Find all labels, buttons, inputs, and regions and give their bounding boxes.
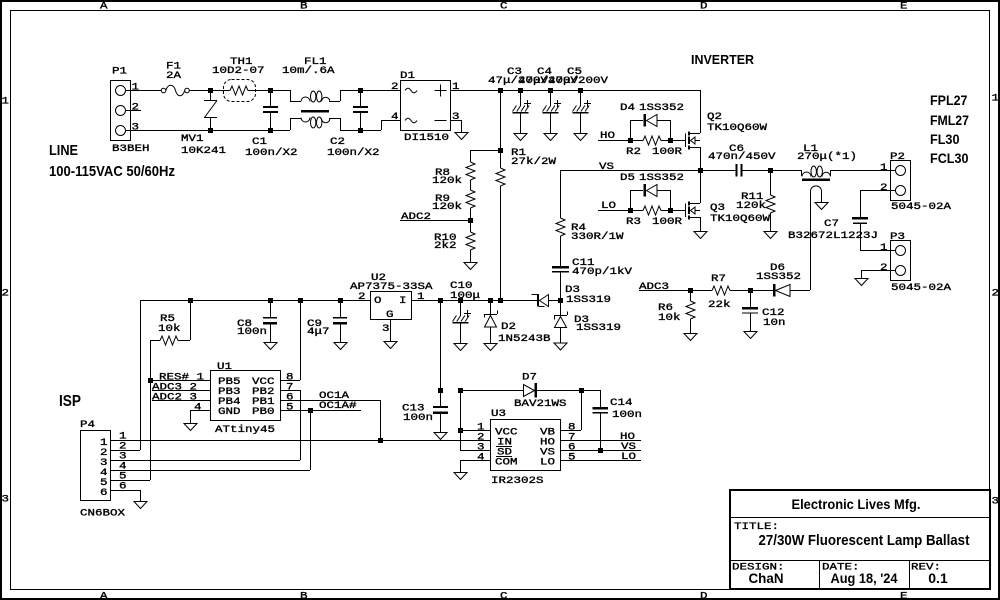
svg-text:MV1: MV1 (181, 133, 204, 145)
capacitor C9 4u7 (340, 300, 342, 317)
ground U3 COM (454, 473, 467, 480)
wire rail right of R1 to D3 (500, 300, 537, 302)
junction MV1 bottom (208, 128, 213, 133)
svg-text:1N5243B: 1N5243B (498, 333, 551, 345)
resistor R1 27k/2W (500, 90, 502, 150)
svg-text:100R: 100R (652, 216, 683, 228)
wire P4.4 (110, 470, 310, 472)
svg-text:4: 4 (194, 402, 202, 414)
net label ADC3 wire (639, 290, 690, 292)
svg-text:GND: GND (218, 406, 241, 418)
svg-text:A: A (100, 591, 108, 600)
svg-text:ISP: ISP (59, 393, 81, 410)
capacitor C8 100n (270, 300, 272, 317)
wire C7 to P3.1 (860, 250, 900, 252)
capacitor C13 100n (440, 390, 442, 406)
svg-text:ADC2 3: ADC2 3 (152, 392, 197, 404)
svg-text:2: 2 (132, 102, 140, 114)
svg-text:2: 2 (880, 262, 888, 274)
junction ADC3 R6 (688, 288, 693, 293)
junction C2 top (358, 88, 363, 93)
svg-text:E: E (900, 591, 908, 600)
capacitor C12 10n (750, 290, 752, 307)
svg-text:470p/1kV: 470p/1kV (572, 266, 633, 278)
svg-text:10k: 10k (658, 312, 681, 324)
svg-text:LO: LO (601, 200, 616, 212)
svg-text:1: 1 (2, 96, 10, 108)
svg-text:27k/2W: 27k/2W (511, 156, 557, 168)
diode D5 1SS352 (630, 190, 632, 210)
inductor L1 270u(*1) (801, 170, 803, 176)
svg-text:IR2302S: IR2302S (491, 475, 544, 487)
resistor R3 100R (643, 206, 661, 215)
wire OC1A# junction down to P4.4 (310, 410, 312, 470)
net label HO wire U3 pin7 (560, 440, 641, 442)
net label HO wire (598, 140, 643, 142)
ground R6 (684, 334, 697, 341)
svg-text:FCL30: FCL30 (930, 150, 969, 166)
svg-text:270μ(*1): 270μ(*1) (797, 151, 857, 163)
svg-text:120k: 120k (432, 201, 462, 213)
svg-text:3: 3 (452, 111, 460, 123)
junction D3 C11 node (558, 298, 563, 303)
capacitor C5 47u/200V (580, 90, 582, 106)
svg-text:C14: C14 (610, 397, 633, 409)
junction C1 bottom (268, 128, 273, 133)
wire TH1 to C1 to FL1 (248, 90, 290, 92)
ground R11 (764, 232, 777, 239)
wire P3.2 to ground (861, 270, 863, 278)
junction C5 (578, 88, 583, 93)
svg-text:5: 5 (568, 452, 576, 464)
ground C13 (434, 433, 447, 440)
svg-text:120k: 120k (432, 175, 462, 187)
fuse F1 2A (161, 88, 166, 93)
svg-text:2: 2 (2, 288, 10, 300)
svg-text:1: 1 (417, 291, 425, 303)
svg-text:ATtiny45: ATtiny45 (215, 424, 275, 436)
svg-text:PB0: PB0 (252, 406, 275, 418)
svg-text:HO: HO (600, 130, 615, 142)
ground C3 (514, 134, 527, 141)
ground D3 (554, 343, 567, 350)
svg-text:B: B (300, 591, 308, 600)
junction rail D7 riser (438, 298, 443, 303)
svg-text:FPL27: FPL27 (930, 92, 968, 108)
svg-text:4μ7: 4μ7 (307, 326, 330, 338)
ground C5 (574, 134, 587, 141)
net label LO wire U3 pin5 (560, 460, 641, 462)
wire VCC rail 3.3V (140, 300, 370, 302)
net label LO wire (598, 210, 643, 212)
svg-text:10m/.6A: 10m/.6A (282, 65, 335, 77)
svg-text:A: A (100, 1, 108, 13)
svg-text:1SS352: 1SS352 (639, 102, 684, 114)
svg-text:1: 1 (992, 93, 1000, 105)
svg-text:R3: R3 (626, 216, 641, 228)
svg-text:ChaN: ChaN (749, 570, 784, 586)
junction U3 VCC pin1 (458, 428, 463, 433)
wire U3 VCC SD riser (460, 390, 462, 450)
junction R1 top (498, 148, 503, 153)
junction C2 bottom (358, 128, 363, 133)
svg-text:C7: C7 (824, 218, 839, 230)
common-mode choke FL1 10m/.6A (290, 90, 292, 101)
svg-text:B32672L1223J: B32672L1223J (788, 230, 878, 242)
svg-text:2: 2 (880, 182, 888, 194)
capacitor C4 47u/200V (550, 90, 552, 106)
svg-text:LINE: LINE (49, 142, 78, 159)
capacitor C6 470n/450V (736, 164, 738, 177)
svg-text:TK10Q60W: TK10Q60W (707, 122, 768, 134)
svg-text:5045-02A: 5045-02A (891, 201, 952, 213)
junction VS node (698, 168, 703, 173)
wire FL1 to C2 to D1 (340, 130, 381, 132)
connector P3 (891, 241, 911, 281)
junction rail C8 (268, 298, 273, 303)
svg-text:P4: P4 (80, 419, 95, 431)
resistor R8 120k (466, 162, 475, 180)
svg-text:1: 1 (880, 162, 888, 174)
ground C9 (334, 343, 347, 350)
svg-text:120k: 120k (736, 200, 766, 212)
net VS wire (560, 170, 700, 172)
diode D6 1SS352 (750, 290, 773, 292)
junction bus D1 (498, 88, 503, 93)
svg-text:D2: D2 (501, 321, 516, 333)
junction R11 top (768, 168, 773, 173)
L1 sense winding (810, 191, 812, 290)
junction OC1A# P4.4 (308, 408, 313, 413)
wire U1 VCC to rail (280, 380, 300, 382)
ground U2 G (384, 342, 397, 349)
ground C12 (744, 332, 757, 339)
svg-text:10K241: 10K241 (181, 145, 226, 157)
capacitor C3 47u/200V (520, 90, 522, 106)
svg-text:Aug 18, '24: Aug 18, '24 (831, 570, 898, 586)
svg-text:3: 3 (992, 496, 1000, 508)
wire P4.5 to RES# (110, 480, 150, 482)
wire VS to C6 (700, 170, 736, 172)
wire P4.2 to VCC riser (110, 450, 140, 452)
capacitor C14 100n (593, 407, 609, 410)
svg-text:10D2-07: 10D2-07 (212, 65, 265, 77)
svg-text:2A: 2A (166, 70, 182, 82)
svg-text:FML27: FML27 (930, 112, 969, 128)
svg-text:0.1: 0.1 (928, 570, 948, 586)
svg-text:3: 3 (132, 122, 140, 134)
svg-text:22k: 22k (708, 299, 731, 311)
junction ADC2 R9 R10 (468, 218, 473, 223)
junction C4 (548, 88, 553, 93)
wire DC bus 200V (500, 90, 700, 92)
connector P4 CN6BOX (81, 431, 111, 501)
svg-text:C: C (500, 591, 508, 600)
net label ADC2 to U1 pin3 (152, 400, 210, 402)
junction LO D5 left (628, 208, 633, 213)
junction MV1 top (208, 88, 213, 93)
svg-text:R7: R7 (711, 273, 726, 285)
svg-text:BAV21WS: BAV21WS (514, 398, 567, 410)
svg-text:1: 1 (880, 242, 888, 254)
net label ADC2 wire (400, 220, 470, 222)
svg-text:4: 4 (477, 452, 485, 464)
svg-text:C: C (500, 1, 508, 13)
svg-text:LO: LO (621, 451, 636, 463)
ground P4.6 (134, 502, 147, 509)
connector P1 (120, 90, 163, 92)
junction rail D2 (488, 298, 493, 303)
resistor R4 330R/1W (560, 170, 562, 218)
svg-text:5: 5 (286, 402, 294, 414)
svg-text:U3: U3 (491, 408, 506, 420)
resistor R6 10k (690, 290, 692, 301)
svg-text:100R: 100R (652, 146, 683, 158)
wire fuse to TH1 (189, 90, 230, 92)
svg-text:100n: 100n (237, 326, 267, 338)
svg-text:5045-02A: 5045-02A (891, 282, 952, 294)
svg-text:2k2: 2k2 (434, 240, 457, 252)
ground D2 (484, 344, 497, 351)
wire R1 junction to R8 (470, 150, 500, 152)
svg-text:100-115VAC 50/60Hz: 100-115VAC 50/60Hz (49, 163, 175, 180)
svg-text:470n/450V: 470n/450V (708, 151, 776, 163)
svg-text:INVERTER: INVERTER (691, 52, 755, 67)
junction C3 (518, 88, 523, 93)
junction R7 C12 (748, 288, 753, 293)
svg-text:D: D (700, 591, 708, 600)
wire P4.3 (110, 460, 300, 462)
wire U3 COM to ground (460, 460, 490, 462)
svg-text:3: 3 (382, 323, 390, 335)
svg-text:27/30W Fluorescent Lamp Ballas: 27/30W Fluorescent Lamp Ballast (759, 532, 970, 549)
svg-text:D: D (700, 1, 708, 13)
svg-text:100n/X2: 100n/X2 (327, 147, 380, 159)
svg-text:2: 2 (358, 291, 366, 303)
ground L1 sense (815, 203, 828, 210)
svg-text:47μ/200V: 47μ/200V (548, 75, 609, 87)
svg-text:1SS352: 1SS352 (639, 172, 684, 184)
svg-text:D4: D4 (620, 102, 635, 114)
resistor R10 2k2 (470, 220, 472, 232)
wire bottom line P1.3 to FL1 (130, 130, 290, 132)
junction rail C9 (338, 298, 343, 303)
svg-text:10n: 10n (763, 317, 786, 329)
svg-text:P3: P3 (890, 231, 905, 243)
svg-text:G: G (386, 309, 394, 321)
transistor Q3 TK10Q60W (685, 204, 687, 218)
svg-text:Electronic Lives Mfg.: Electronic Lives Mfg. (792, 496, 921, 512)
connector P2 (891, 161, 911, 201)
svg-text:D5: D5 (620, 172, 635, 184)
net label OC1A wire U1 PB1 (280, 400, 380, 402)
svg-text:R2: R2 (626, 146, 641, 158)
svg-text:FL30: FL30 (930, 131, 960, 147)
ground C8 (264, 343, 277, 350)
resistor R7 22k (690, 290, 712, 292)
svg-text:D1: D1 (400, 70, 415, 82)
junction rail C10 (458, 298, 463, 303)
svg-text:CN6BOX: CN6BOX (80, 508, 126, 520)
gate driver U3 IR2302S (491, 420, 561, 471)
svg-text:E: E (900, 1, 908, 13)
junction R3 D5 right (668, 208, 673, 213)
resistor R2 100R (643, 136, 661, 145)
junction C14 VS (598, 448, 603, 453)
svg-text:I: I (399, 295, 407, 307)
wire VCC rail corner down to P4.2 (140, 300, 142, 450)
wire C6 to L1 (743, 170, 771, 172)
net label ADC3 to U1 pin2 (152, 390, 210, 392)
svg-text:DI1510: DI1510 (404, 132, 449, 144)
diode D3 1SS319 vertical (560, 300, 562, 316)
svg-text:TK10Q60W: TK10Q60W (710, 213, 771, 225)
capacitor C7 B32672L1223J (852, 217, 868, 220)
ground D1 pin3 (455, 133, 468, 140)
svg-text:B: B (300, 1, 308, 13)
svg-text:OC1A#: OC1A# (319, 400, 357, 412)
regulator U2 AP7375-33SA (371, 292, 412, 320)
svg-text:100μ: 100μ (450, 290, 480, 302)
svg-text:6: 6 (100, 487, 108, 499)
resistor R5 10k (190, 300, 192, 340)
svg-text:330R/1W: 330R/1W (571, 231, 624, 243)
svg-text:100n/X2: 100n/X2 (245, 147, 298, 159)
wire D1 pin1 to bus (450, 90, 500, 92)
ground U1 GND (184, 424, 197, 431)
resistor R11 120k (770, 170, 772, 195)
wire P4.6 to ground (110, 490, 140, 492)
net label OC1A# wire U1 PB0 (280, 410, 361, 412)
net label RES# wire (150, 380, 210, 382)
bridge rectifier D1 DI1510 (401, 81, 451, 131)
ground C10 (454, 344, 467, 351)
svg-text:1SS319: 1SS319 (576, 322, 621, 334)
zener D2 1N5243B (490, 300, 492, 314)
wire U3 pin1 (460, 430, 490, 432)
svg-text:U1: U1 (217, 361, 232, 373)
svg-text:VS: VS (599, 161, 614, 173)
wire P2.2 to C7 (860, 190, 862, 217)
wire rail riser to D7 rail (440, 300, 442, 390)
svg-text:2: 2 (992, 288, 1000, 300)
junction P4.1 OC1A (378, 438, 383, 443)
svg-text:B3BEH: B3BEH (112, 143, 150, 155)
diode D7 BAV21WS (460, 390, 523, 392)
capacitor C10 100u (460, 300, 462, 316)
diode D4 1SS352 (630, 120, 632, 140)
junction RES# net (148, 378, 153, 383)
junction R2 D4 right (668, 138, 673, 143)
wire U1 PB2 to P4.3 (280, 390, 300, 392)
svg-text:LO: LO (540, 457, 555, 469)
svg-text:4: 4 (391, 111, 399, 123)
junction C1 top (268, 88, 273, 93)
svg-text:100n: 100n (612, 409, 642, 421)
title block frame (730, 490, 990, 589)
svg-text:1: 1 (452, 81, 460, 93)
varistor MV1 10K241 (210, 90, 212, 100)
wire D1 pin3 to ground (450, 120, 461, 122)
svg-text:10k: 10k (158, 323, 181, 335)
junction D7 rail left (438, 388, 443, 393)
wire D7 to C14 (581, 390, 600, 392)
svg-text:O: O (374, 295, 382, 307)
svg-text:1SS352: 1SS352 (756, 271, 801, 283)
capacitor C2 100n/X2 (360, 90, 362, 106)
svg-text:D7: D7 (522, 372, 537, 384)
junction D7 rail U3 VCC riser (458, 388, 463, 393)
wire U2 G to ground (390, 320, 392, 341)
svg-text:1SS319: 1SS319 (566, 294, 611, 306)
thermistor TH1 10D2-07 (224, 80, 256, 102)
junction D7 VB riser (579, 388, 584, 393)
ground R10 (464, 263, 477, 270)
junction rail U1 VCC riser (298, 298, 303, 303)
resistor R9 120k (466, 190, 475, 208)
net label VS wire U3 pin6 (560, 450, 641, 452)
junction rail R5 (188, 298, 193, 303)
capacitor C1 100n/X2 (270, 90, 272, 106)
svg-text:P1: P1 (112, 66, 127, 78)
junction rail R1 bottom (498, 298, 503, 303)
capacitor C11 470p/1kV (552, 266, 569, 269)
junction HO D4 left (628, 138, 633, 143)
transistor Q2 TK10Q60W (685, 134, 687, 148)
svg-text:ADC2: ADC2 (401, 211, 431, 223)
wire U3 VB to D7 (560, 430, 581, 432)
wire U3 pin3 (460, 450, 490, 452)
svg-text:P2: P2 (890, 151, 905, 163)
svg-text:2: 2 (391, 81, 399, 93)
diode D3 1SS319 horizontal (537, 294, 539, 307)
svg-text:3: 3 (2, 494, 10, 506)
svg-text:COM: COM (495, 457, 518, 469)
svg-text:ADC3: ADC3 (639, 281, 669, 293)
wire P4.1 to U3 IN (110, 440, 490, 442)
ground P3.2 (855, 279, 868, 286)
svg-text:100n: 100n (403, 412, 433, 424)
svg-text:1: 1 (132, 82, 140, 94)
ground C4 (544, 134, 557, 141)
mcu U1 ATtiny45 (211, 371, 281, 421)
ground Q3 source (694, 232, 707, 239)
